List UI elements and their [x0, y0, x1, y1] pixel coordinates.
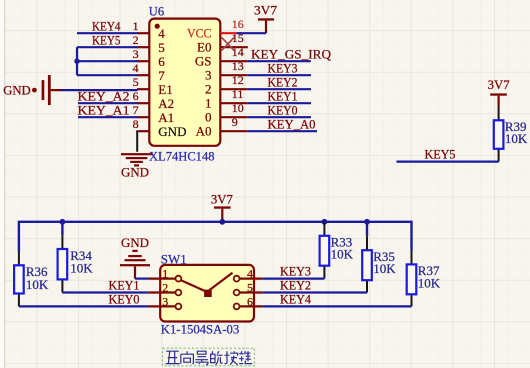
svg-text:10K: 10K — [373, 261, 396, 276]
resistor R35 — [362, 236, 372, 292]
svg-text:2: 2 — [162, 281, 168, 295]
resistor R33 — [320, 222, 330, 279]
svg-text:4: 4 — [158, 26, 165, 41]
resistor R36 — [14, 252, 24, 307]
pin 1 of U6 (name 4) — [133, 19, 166, 41]
wire KEY4 from SW1 pin 6 to R37 — [262, 305, 411, 307]
wire KEY5 to R39 — [397, 161, 499, 163]
svg-text:KEY3: KEY3 — [268, 60, 298, 75]
wire KEY2 from pin 12 — [248, 88, 311, 90]
wire KEY1 from R34 to SW1 pin 2 — [62, 291, 148, 293]
svg-text:14: 14 — [232, 45, 244, 59]
pin 1 of SW1 — [148, 267, 181, 282]
pin 12 of U6 (name 2) — [205, 73, 248, 97]
svg-text:KEY5: KEY5 — [92, 32, 121, 47]
pin 4 of SW1 — [234, 267, 263, 282]
junction dot 3V7 stem — [219, 219, 225, 225]
wire rail down to R37 — [410, 221, 412, 251]
wire KEY0 from R36 to SW1 pin 3 — [19, 305, 149, 307]
pin 10 of U6 (name 0) — [205, 101, 248, 125]
switch SW1 body — [160, 265, 254, 322]
pin 4 of U6 (name 7) — [133, 61, 166, 83]
svg-text:6: 6 — [133, 89, 139, 103]
svg-text:4: 4 — [247, 267, 253, 281]
power 3V7 above R39 — [488, 77, 510, 107]
power 3V7 at pin 16 — [254, 2, 278, 33]
svg-text:KEY2: KEY2 — [268, 74, 298, 89]
svg-text:E1: E1 — [158, 82, 172, 97]
wire KEY1 from pin 11 — [248, 102, 311, 104]
wire KEY_A2 to pin 6 — [78, 102, 138, 104]
op-amp U6 body (74HC148 priority encoder) — [149, 19, 220, 146]
svg-text:13: 13 — [232, 59, 244, 73]
svg-text:GND: GND — [121, 235, 149, 250]
wire KEY3 from SW1 pin 4 to R33 — [262, 278, 324, 280]
svg-text:2: 2 — [133, 33, 139, 47]
svg-text:7: 7 — [158, 68, 165, 83]
svg-text:4: 4 — [133, 61, 139, 75]
junction dot R34 branch — [60, 219, 66, 225]
svg-text:10K: 10K — [26, 277, 49, 292]
wire KEY_GS_IRQ from pin 14 — [248, 60, 311, 62]
svg-text:XL74HC148: XL74HC148 — [149, 150, 215, 164]
svg-text:KEY2: KEY2 — [280, 278, 311, 293]
svg-text:3V7: 3V7 — [211, 191, 233, 206]
svg-text:KEY4: KEY4 — [92, 18, 121, 33]
svg-text:1: 1 — [205, 96, 212, 111]
pin 6 of U6 (name A2) — [133, 89, 175, 111]
pin 13 of U6 (name 3) — [205, 59, 248, 83]
svg-text:K1-1504SA-03: K1-1504SA-03 — [161, 323, 240, 337]
wire KEY5 to pin 2 — [77, 46, 138, 48]
svg-text:GND: GND — [3, 83, 31, 98]
svg-text:1: 1 — [162, 267, 168, 281]
svg-text:VCC: VCC — [187, 26, 212, 41]
ground symbol below U6 — [121, 153, 152, 166]
svg-text:A2: A2 — [158, 96, 174, 111]
wire pin 16 to 3V7 — [237, 32, 266, 34]
pin 8 of U6 (name GND) — [133, 117, 187, 139]
svg-text:KEY0: KEY0 — [268, 102, 298, 117]
wire KEY0 from pin 10 — [248, 116, 311, 118]
svg-text:KEY0: KEY0 — [109, 292, 140, 307]
pin 14 of U6 (name GS) — [195, 45, 248, 69]
power 3V7 on resistor rail — [211, 191, 233, 221]
svg-text:10K: 10K — [418, 275, 441, 290]
svg-text:3V7: 3V7 — [254, 2, 278, 17]
pin 3 of SW1 — [148, 294, 181, 309]
svg-text:6: 6 — [158, 54, 165, 69]
svg-text:10: 10 — [232, 101, 244, 115]
resistor R39 — [494, 107, 504, 162]
svg-text:GND: GND — [121, 165, 149, 180]
svg-text:KEY_A0: KEY_A0 — [268, 116, 316, 131]
wire KEY3 from pin 13 — [248, 74, 311, 76]
svg-text:5: 5 — [247, 281, 253, 295]
junction dot R35 branch — [364, 219, 370, 225]
svg-text:0: 0 — [205, 110, 212, 125]
svg-text:3: 3 — [133, 47, 139, 61]
pin 9 of U6 (name A0) — [196, 115, 248, 139]
svg-text:8: 8 — [133, 117, 139, 131]
pin 11 of U6 (name 1) — [205, 87, 248, 111]
switch arm from pin 1 — [181, 280, 206, 291]
svg-text:11: 11 — [232, 87, 244, 101]
svg-text:KEY5: KEY5 — [425, 147, 456, 162]
svg-text:KEY_A1: KEY_A1 — [78, 102, 130, 117]
svg-text:10K: 10K — [505, 131, 528, 146]
svg-text:5: 5 — [158, 40, 165, 55]
svg-text:KEY3: KEY3 — [280, 264, 311, 279]
pin 2 of SW1 — [148, 281, 181, 296]
wire to pin 3 — [77, 60, 138, 62]
switch common pole square — [204, 290, 212, 297]
vertical wire joining pins 2,3,4 — [76, 47, 78, 75]
no-ERC marker X on pin 15 — [222, 37, 235, 50]
pin 2 of U6 (name 5) — [133, 33, 165, 55]
svg-text:U6: U6 — [149, 5, 164, 19]
note text: five-way navigation keys (CJK) — [163, 348, 255, 366]
svg-text:1: 1 — [133, 19, 139, 33]
svg-text:KEY1: KEY1 — [268, 88, 298, 103]
svg-text:10K: 10K — [331, 247, 354, 262]
resistor R34 — [58, 235, 68, 292]
pin-1 indicator dot of U6 — [155, 24, 160, 29]
wire pin 8 down to ground — [137, 131, 139, 152]
svg-text:SW1: SW1 — [161, 253, 187, 267]
wire KEY2 from SW1 pin 5 to R35 — [262, 291, 367, 293]
pin 16 of U6 (name VCC) — [187, 17, 244, 41]
wire GND to SW1 pin 1 — [135, 278, 148, 280]
wire GND to pin 5 — [61, 89, 138, 91]
pin 5 of U6 (name E1) — [133, 75, 173, 97]
pin 5 of SW1 — [234, 281, 263, 296]
pin 7 of U6 (name A1) — [133, 103, 175, 125]
pin 3 of U6 (name 6) — [133, 47, 166, 69]
svg-text:KEY1: KEY1 — [109, 278, 140, 293]
svg-text:KEY4: KEY4 — [280, 292, 311, 307]
wire to pin 4 — [77, 74, 138, 76]
svg-text:3: 3 — [162, 294, 168, 308]
svg-text:KEY_GS_IRQ: KEY_GS_IRQ — [251, 46, 332, 61]
svg-text:6: 6 — [247, 294, 253, 308]
svg-text:E0: E0 — [197, 40, 211, 55]
svg-text:9: 9 — [232, 115, 238, 129]
svg-text:A1: A1 — [158, 110, 174, 125]
power ground GND at pin 5 (E1) — [3, 75, 61, 105]
pin 6 of SW1 — [234, 294, 263, 309]
svg-text:KEY_A2: KEY_A2 — [78, 88, 130, 103]
svg-text:GND: GND — [158, 124, 186, 139]
wire KEY_A1 to pin 7 — [78, 116, 138, 118]
wire rail down to R36 — [18, 221, 20, 252]
ground symbol at SW1 pin 1 — [120, 235, 150, 279]
svg-text:5: 5 — [133, 75, 139, 89]
wire 3V7 rail — [19, 221, 412, 223]
wire rail down to R35 — [366, 222, 368, 237]
junction dot R33 branch — [322, 219, 328, 225]
svg-text:3: 3 — [205, 68, 212, 83]
wire KEY_A0 from pin 9 — [248, 130, 317, 132]
svg-text:A0: A0 — [196, 124, 212, 139]
switch arm toward pin 4 — [210, 273, 233, 290]
wire rail down to R34 — [61, 222, 63, 235]
svg-text:2: 2 — [205, 82, 212, 97]
svg-text:10K: 10K — [70, 261, 93, 276]
svg-text:16: 16 — [232, 17, 244, 31]
svg-text:3V7: 3V7 — [488, 77, 510, 92]
svg-text:GS: GS — [195, 54, 212, 69]
svg-text:7: 7 — [133, 103, 139, 117]
resistor R37 — [407, 251, 417, 307]
wire KEY4 to pin 1 — [77, 32, 138, 34]
junction dot at pin 3 wire — [74, 59, 79, 64]
svg-text:12: 12 — [232, 73, 244, 87]
pin 15 of U6 (name E0) — [197, 31, 248, 55]
